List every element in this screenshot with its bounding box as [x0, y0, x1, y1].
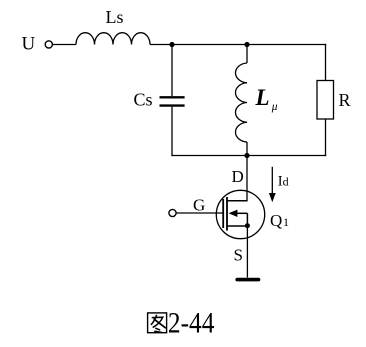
svg-text:U: U — [22, 34, 36, 55]
svg-text:L: L — [255, 85, 270, 110]
gate terminal — [169, 209, 176, 216]
svg-text:D: D — [232, 167, 244, 186]
node junction top-left — [169, 42, 174, 47]
wire — [246, 45, 248, 64]
wire — [325, 119, 327, 156]
body-source link — [246, 213, 248, 226]
source stub — [227, 225, 247, 227]
svg-text:G: G — [193, 196, 205, 215]
input terminal — [45, 41, 52, 48]
svg-text:μ: μ — [271, 101, 278, 113]
wire source — [246, 226, 248, 278]
current Id arrow — [271, 167, 273, 195]
drain stub — [227, 200, 247, 202]
body arrow — [229, 210, 238, 217]
wire — [171, 107, 173, 156]
svg-text:S: S — [234, 246, 243, 265]
wire gate — [176, 212, 222, 214]
node junction top-middle — [244, 42, 249, 47]
caption figure 2-44 glyph tu — [148, 313, 167, 333]
wire drain — [246, 156, 248, 202]
transistor Q1 body circle — [216, 190, 264, 238]
node body-source junction — [245, 223, 250, 228]
svg-text:1: 1 — [283, 215, 289, 229]
wire bottom rail — [171, 155, 326, 157]
node junction bottom rail — [244, 153, 249, 158]
wire top rail — [150, 44, 326, 46]
ground — [237, 278, 258, 282]
svg-text:Cs: Cs — [134, 90, 153, 110]
wire — [246, 142, 248, 156]
wire — [325, 44, 327, 81]
svg-text:R: R — [339, 90, 351, 110]
gate plate — [222, 199, 224, 228]
inductor Ls — [76, 33, 150, 45]
svg-text:d: d — [283, 175, 289, 189]
capacitor Cs — [160, 96, 185, 98]
inductor Lmu — [235, 63, 247, 142]
resistor R — [317, 81, 334, 120]
wire — [53, 44, 77, 46]
svg-text:Ls: Ls — [106, 7, 124, 27]
channel bar — [226, 197, 228, 231]
wire — [171, 44, 173, 96]
svg-text:2-44: 2-44 — [168, 307, 215, 340]
svg-text:Q: Q — [270, 211, 282, 230]
